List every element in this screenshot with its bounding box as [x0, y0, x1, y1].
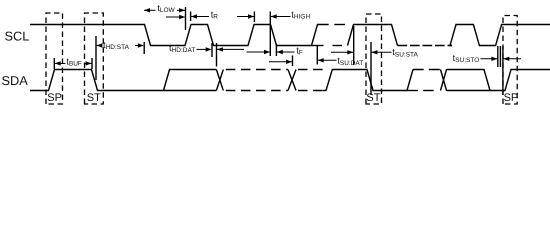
bar SCL rise G (tSU;STA left) — [353, 26, 355, 65]
arrowhead tHD;STA right (points right into bar 144.2) — [138, 43, 144, 47]
measurement boundary bars — [54, 7, 503, 95]
tSU;STO left outside arrow — [481, 58, 498, 60]
bar fall D top (tHIGH right / tF left) — [269, 12, 271, 57]
bar SDA fall H (tSU;STA right) — [370, 42, 372, 95]
arrowhead tR (points left into bar 190.6) — [191, 14, 197, 18]
bar fall D bottom (tF right) — [275, 44, 277, 56]
tBUF dimension line — [55, 62, 66, 64]
arrowhead tSU;DAT right (points left into bar 317.3) — [318, 58, 324, 62]
tR outside arrow right / tHIGH outside arrow left (shared) — [191, 16, 209, 18]
arrowhead tHD;DAT (points right into bar 212) — [206, 47, 212, 51]
svg-text:SP: SP — [47, 92, 62, 104]
SDA solid rails to STOP: high rail, fall L, low rail, rise K — [447, 70, 550, 91]
arrowhead tHD;STA left (points left into bar 96) — [96, 43, 102, 47]
tHD;DAT leader — [197, 48, 209, 50]
SCL last pulse and final high to right edge — [450, 25, 550, 46]
box SP left — [46, 13, 63, 104]
SDA crossover X4 — [441, 70, 447, 91]
SCL dashed low rail segment (omitted clocks) — [333, 45, 343, 47]
bar tHD;DAT right (SDA X1 transition) — [216, 43, 218, 67]
SDA low rail + tBUF pulse — [30, 70, 216, 91]
box ST right — [366, 14, 382, 104]
SCL dashed high rail segment (omitted clocks) — [334, 24, 345, 26]
SDA low rail continues under rise, then dashed — [407, 90, 418, 92]
tF left outside arrow — [247, 51, 271, 53]
arrowhead tHD;DAT outside-right (points left into bar 216.5) — [217, 47, 223, 51]
arrowhead tSU;STO left (points right into bar 497.8) — [491, 57, 497, 61]
tSU;DAT left outside arrow — [269, 61, 292, 63]
bar X2 center (tSU;DAT left) — [292, 56, 294, 67]
bar rise B top (tR left) — [190, 12, 192, 22]
bar tSU;STO B (SCL rise J) — [499, 46, 501, 67]
box SP right — [503, 16, 517, 105]
bar tBUF left (SDA rise1 top) — [53, 58, 55, 69]
dimension lines — [55, 10, 521, 63]
arrowhead tBUF left (points left into bar 54.3) — [55, 61, 61, 65]
tSU;STO right outside arrow — [503, 58, 521, 60]
tLOW dimension line — [144, 9, 156, 11]
arrowhead tF (points left into bar 276.4) — [277, 50, 283, 54]
tSU;STA left outside arrow — [331, 51, 353, 53]
bar SCL rise E (tSU;DAT right) — [316, 46, 318, 65]
arrowhead tR right (points right into bar 254.4) — [248, 14, 254, 18]
tF right outside arrow — [277, 51, 295, 53]
arrowhead tHIGH (points left into bar 270.3) — [271, 14, 277, 18]
SDA high rail solid stub then dash before X4 — [413, 69, 440, 71]
SDA dashed rails between X1 and X2 — [226, 70, 288, 91]
arrowhead tF outside-left (points right into bar 270.3) — [264, 50, 270, 54]
arrowhead tBUF right (points right into bar 92) — [86, 61, 92, 65]
bar tHD;STA right (SCL fall A) — [143, 42, 145, 54]
SDA crossover X1 — [216, 70, 223, 91]
svg-text:SCL: SCL — [5, 28, 30, 43]
tHD;DAT right outside arrow — [217, 48, 244, 50]
bar tHD;STA left (SDA fall / start) — [95, 36, 97, 80]
bar rise C2 top (tR right / tHIGH left) — [253, 12, 255, 23]
SDA rise F, solid high, fall H into ST box, low rail — [326, 70, 413, 91]
tHD;STA dimension line — [96, 45, 102, 47]
SDA crossover X2 — [288, 70, 296, 91]
bar tHD;DAT left (SCL fall C) — [211, 43, 213, 57]
svg-text:ST: ST — [366, 92, 380, 104]
SDA low rail dash piece into rise F — [323, 90, 327, 92]
arrowhead tSU;STO right (points left into bar 502.9) — [503, 57, 509, 61]
tSU;STA right outside arrow — [371, 51, 391, 53]
SCL low rail spur after rise E — [312, 45, 324, 47]
arrowhead tSU;STA left (points right into bar 353.7) — [347, 50, 353, 54]
SCL dashed low line before STOP clock — [398, 45, 453, 47]
box ST left — [85, 13, 104, 104]
arrowhead tLOW left (points left) — [144, 8, 150, 12]
tLOW second outside arrow line at rise B bottom bar — [166, 16, 185, 18]
arrowhead tSU;STA right (points left into bar 371) — [371, 50, 377, 54]
tSU;DAT right outside arrow — [318, 59, 337, 61]
SDA dashed low rail before X4 — [423, 90, 434, 92]
arrowhead tSU;DAT left (points right into bar 292.5) — [286, 60, 292, 64]
SDA dashed rails after X2 — [298, 70, 324, 91]
bar tSU;STO A — [497, 46, 499, 67]
dashed marker boxes — [46, 13, 517, 104]
svg-text:ST: ST — [87, 92, 101, 104]
bar tBUF right (SDA fall1 top) — [91, 58, 93, 69]
bar tLOW right / rise B bottom — [185, 7, 187, 30]
bar tSU;STO C (SDA rise K) — [502, 46, 504, 95]
arrowhead tLOW right (points right into bar) — [179, 8, 185, 12]
SDA high rail rise after ST — [164, 70, 217, 91]
svg-text:SP: SP — [504, 92, 519, 104]
svg-text:SDA: SDA — [2, 73, 29, 88]
SCL waveform solid trace left — [30, 25, 329, 46]
tHIGH right outside arrow — [271, 16, 291, 18]
arrowhead outside-left at rise B bottom bar (points right) — [179, 15, 185, 19]
SCL rise G through ST box, fall, dashed low idle — [348, 25, 398, 46]
